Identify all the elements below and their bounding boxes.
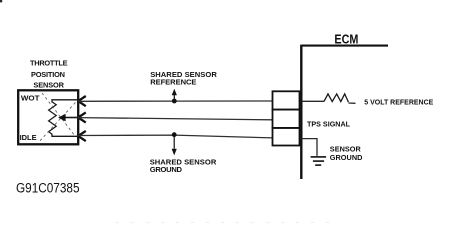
throttle position sensor box	[18, 90, 78, 144]
wire: resistor top to box edge	[52, 100, 78, 103]
ECM top boundary line	[302, 45, 388, 47]
resistor (5V pull-up) zigzag	[324, 94, 348, 102]
ECM connector terminal 3	[273, 128, 300, 146]
wire: 5 volt reference (top)	[78, 100, 273, 102]
wire: TPS signal (middle)	[78, 118, 273, 120]
dashed wiper travel line (WOT side)	[42, 93, 76, 137]
ground symbol bar 2	[313, 160, 324, 162]
label: THROTTLE POSITION SENSOR	[30, 59, 68, 90]
wire: resistor bottom to box edge	[52, 134, 78, 136]
label: SENSOR GROUND	[330, 144, 363, 162]
connector arrowhead (5V reference pin, at box edge)	[78, 96, 86, 106]
svg-text:GROUND: GROUND	[150, 165, 183, 174]
svg-text:G91C07385: G91C07385	[16, 181, 80, 196]
svg-text:WOT: WOT	[21, 94, 40, 103]
label: SHARED SENSOR GROUND	[150, 158, 217, 175]
svg-text:REFERENCE: REFERENCE	[150, 77, 196, 86]
tap arrow up from reference wire	[173, 94, 175, 101]
dashed wiper travel line (IDLE side)	[40, 102, 76, 140]
wire: sensor ground inside ECM	[302, 139, 318, 156]
wire: 5V reference inside ECM	[302, 100, 324, 102]
wiper arrowhead	[58, 114, 65, 122]
corner scan speck	[0, 0, 2, 2]
wiper arrow shaft	[62, 117, 78, 119]
svg-text:ECM: ECM	[334, 32, 358, 47]
tap arrow down from ground wire	[173, 135, 175, 149]
ECM connector terminal 2	[273, 110, 300, 128]
svg-text:GROUND: GROUND	[330, 153, 363, 162]
svg-text:THROTTLE: THROTTLE	[30, 59, 68, 68]
ECM left boundary line	[300, 45, 302, 179]
ground symbol bar 1	[311, 156, 327, 158]
ground symbol bar 3	[315, 164, 321, 166]
svg-text:SENSOR: SENSOR	[330, 144, 362, 153]
svg-text:SENSOR: SENSOR	[33, 81, 64, 90]
svg-text:5 VOLT REFERENCE: 5 VOLT REFERENCE	[364, 100, 433, 107]
connector arrowhead (signal pin, at box edge)	[78, 112, 86, 122]
wire: sensor ground (bottom)	[78, 135, 273, 138]
label: SHARED SENSOR REFERENCE	[150, 70, 217, 86]
junction node on ground wire	[172, 132, 177, 137]
svg-text:IDLE: IDLE	[20, 133, 37, 142]
junction node on reference wire	[172, 99, 177, 104]
faint scan artifact row	[116, 222, 332, 224]
potentiometer resistor element (vertical zigzag)	[49, 102, 57, 134]
svg-text:TPS SIGNAL: TPS SIGNAL	[307, 119, 351, 128]
svg-text:POSITION: POSITION	[31, 70, 65, 79]
ECM connector terminal 1	[273, 91, 300, 109]
wire: resistor tail	[348, 102, 355, 104]
connector arrowhead (ground pin, at box edge)	[78, 131, 86, 141]
